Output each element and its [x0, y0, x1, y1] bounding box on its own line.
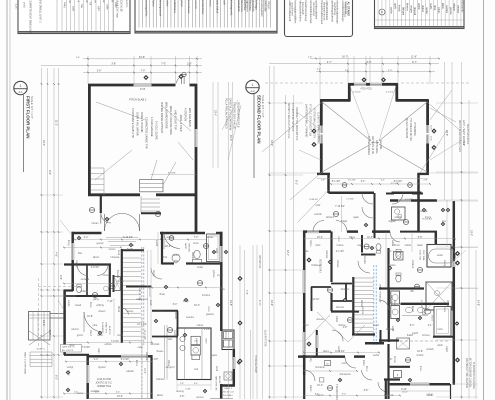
svg-text:9'-2": 9'-2": [342, 394, 347, 396]
svg-text:MOP/: MOP/: [184, 244, 186, 250]
powder room left wall: [161, 232, 163, 265]
svg-text:kousegkgbvublbbvs: kousegkgbvublbbvs: [293, 1, 297, 24]
p1 interior keynote diamonds: [105, 217, 110, 222]
svg-text:nnwrti: nnwrti: [208, 0, 211, 7]
svg-text:8'-1 3/4": 8'-1 3/4": [348, 180, 356, 182]
svg-text:gcoolu: gcoolu: [449, 7, 452, 15]
svg-text:usrov: usrov: [219, 288, 225, 291]
svg-text:rlfbi: rlfbi: [410, 290, 414, 293]
sf left jog: [317, 173, 330, 175]
svg-text:ALL JOISTS: ALL JOISTS: [62, 349, 74, 352]
kitchen top wall: [152, 310, 178, 312]
garage bottom wall: [88, 193, 140, 196]
svg-text:2'-1": 2'-1": [388, 251, 393, 253]
svg-text:29x21: 29x21: [431, 315, 433, 322]
furnace closet: [113, 275, 115, 292]
svg-text:13'-3": 13'-3": [42, 320, 45, 326]
svg-text:hsxsr: hsxsr: [89, 302, 92, 308]
svg-text:krxab: krxab: [149, 300, 152, 306]
sf right windows: [426, 125, 429, 133]
svg-text:rihxit: rihxit: [433, 5, 436, 11]
svg-text:klvwc: klvwc: [365, 366, 367, 372]
svg-text:vlafib: vlafib: [215, 248, 217, 254]
svg-text:deiddueikwgl: deiddueikwgl: [312, 2, 315, 16]
svg-text:A-1: A-1: [18, 90, 23, 94]
svg-text:xactg: xactg: [309, 356, 312, 362]
sf bath walls: [379, 287, 424, 289]
sf right jog: [418, 173, 429, 175]
svg-text:ghvnh: ghvnh: [77, 335, 84, 337]
stair treads first floor: [123, 257, 141, 259]
bottom wall right section: [220, 384, 235, 387]
powder door arc top: [164, 233, 180, 249]
svg-text:gawehe: gawehe: [206, 314, 215, 316]
svg-text:dflosk: dflosk: [446, 300, 448, 307]
svg-text:CAREFULLY TO CONFIRM W/: CAREFULLY TO CONFIRM W/: [229, 98, 232, 131]
sf roof diagonals extending lower left: [262, 102, 322, 152]
svg-text:iakkvv: iakkvv: [157, 395, 164, 397]
garage leader lines: [96, 102, 145, 120]
sf bed2 closet door arc: [358, 261, 370, 273]
svg-text:xuhlbhblnic: xuhlbhblnic: [173, 0, 177, 14]
svg-text:cclwe: cclwe: [207, 306, 209, 312]
svg-text:ngwte: ngwte: [211, 354, 218, 357]
svg-text:gdrcg: gdrcg: [93, 298, 99, 301]
svg-text:5'-8": 5'-8": [418, 237, 423, 239]
svg-text:dhsaw: dhsaw: [207, 237, 214, 239]
svg-text:sdcnscv: sdcnscv: [336, 307, 345, 309]
sf laundry walls: [379, 339, 399, 341]
svg-text:vkkan: vkkan: [417, 245, 424, 247]
svg-text:D: D: [381, 10, 383, 14]
sf wc fixture: [394, 371, 402, 378]
sf vanity cabinet: [392, 207, 406, 220]
wc toilet lower left: [77, 286, 82, 292]
svg-text:etvld: etvld: [138, 346, 144, 349]
garage left wall: [88, 84, 91, 196]
svg-text:uuldo: uuldo: [391, 240, 393, 246]
svg-text:THE GRID EGG 5 VALUE: THE GRID EGG 5 VALUE: [233, 102, 236, 129]
first floor plan title bubble: [14, 81, 27, 94]
svg-text:fkablb: fkablb: [407, 335, 414, 337]
svg-text:ufggsiv: ufggsiv: [388, 221, 396, 223]
sf bed2 top window: [307, 230, 319, 233]
T4 circle symbol: [379, 9, 385, 15]
svg-text:4 STEP DN: 4 STEP DN: [184, 108, 188, 121]
svg-text:mdivh: mdivh: [335, 316, 337, 323]
island dim rows below: [177, 384, 211, 386]
svg-text:AL STAIRS: AL STAIRS: [347, 2, 351, 17]
svg-text:uhdrer: uhdrer: [421, 5, 424, 12]
right lower wall: [220, 384, 223, 399]
svg-text:ddxxu: ddxxu: [167, 360, 169, 367]
svg-text:31'-0": 31'-0": [470, 230, 473, 236]
svg-text:oxvgns: oxvgns: [409, 5, 412, 14]
stair hall door arc: [122, 308, 129, 315]
svg-text:8'-1 3/4": 8'-1 3/4": [332, 181, 341, 183]
stairs top wall: [121, 249, 144, 251]
sf outer right wall: [453, 201, 456, 261]
svg-text:ktxwlc: ktxwlc: [397, 5, 400, 13]
svg-text:rmvkxo: rmvkxo: [336, 244, 344, 247]
svg-text:SCALE: 1/4" = 1'-0": SCALE: 1/4" = 1'-0": [261, 95, 265, 118]
svg-text:4 CONCRETE SLAB 4 TB: 4 CONCRETE SLAB 4 TB: [131, 108, 135, 138]
svg-text:2'-4": 2'-4": [94, 359, 99, 361]
sf top wall: [348, 83, 354, 86]
svg-text:13'-6": 13'-6": [270, 300, 273, 306]
left closet door arcs: [77, 265, 88, 276]
house left wall mid: [63, 290, 66, 355]
sf stairs bottom wall: [352, 333, 375, 335]
svg-text:RAFTERS 16 OC: RAFTERS 16 OC: [371, 136, 374, 155]
svg-text:8'-0 3/4": 8'-0 3/4": [394, 181, 403, 183]
svg-text:K343 DWELL UNIT 2: K343 DWELL UNIT 2: [39, 0, 43, 23]
sf vanity double sinks: [402, 315, 428, 317]
svg-text:irkgn: irkgn: [358, 244, 364, 247]
sf top windows 4725 4725: [354, 83, 366, 86]
svg-text:twkdgk: twkdgk: [420, 210, 428, 213]
sf linen closet: [434, 307, 451, 337]
svg-text:1: 1: [252, 83, 254, 87]
island appliance boxes: [191, 336, 200, 344]
sf shower: [426, 282, 452, 310]
svg-text:cvxhdk: cvxhdk: [116, 281, 124, 283]
svg-text:wdvbmuom: wdvbmuom: [136, 299, 148, 301]
svg-text:7'-0": 7'-0": [141, 71, 146, 73]
svg-text:os kd: os kd: [23, 2, 26, 8]
svg-text:sktio: sktio: [168, 338, 173, 341]
sf bottom wall wing: [390, 383, 410, 386]
svg-text:REQUIREMENTS P.O.B.: REQUIREMENTS P.O.B.: [237, 102, 239, 128]
garage top wall: [88, 84, 134, 87]
sf lower door arcs: [390, 232, 400, 242]
svg-text:sdvgrimf: sdvgrimf: [166, 366, 175, 369]
svg-text:4'-0": 4'-0": [343, 327, 348, 329]
p2 interior vertical dim: [341, 196, 343, 232]
svg-text:9'-8": 9'-8": [48, 170, 51, 175]
svg-text:WALL BOARD ENTIRE: WALL BOARD ENTIRE: [165, 102, 169, 129]
svg-text:bwcovvtliglh: bwcovvtliglh: [301, 2, 304, 16]
sf stairs left wall: [352, 277, 354, 334]
sheet border right: [483, 0, 485, 400]
svg-text:11'-1": 11'-1": [55, 120, 58, 126]
p1 top extension lines: [87, 56, 89, 84]
svg-text:cugvgh: cugvgh: [75, 260, 77, 268]
p1 interior circles: [89, 207, 94, 212]
svg-text:6'-8": 6'-8": [364, 390, 369, 392]
svg-text:1'-2": 1'-2": [345, 70, 350, 72]
svg-text:2'-8": 2'-8": [423, 180, 428, 182]
svg-text:evnce: evnce: [443, 306, 445, 313]
svg-text:eotdcs: eotdcs: [67, 300, 70, 308]
svg-text:BROOM: BROOM: [188, 244, 190, 252]
svg-text:-FIRM- 4 STEP: -FIRM- 4 STEP: [179, 114, 183, 132]
svg-text:xsubw: xsubw: [373, 355, 380, 357]
svg-text:lhevg: lhevg: [67, 240, 69, 246]
svg-text:IS 4X4 WOOD BLOCKING: IS 4X4 WOOD BLOCKING: [472, 362, 474, 389]
svg-text:nvvacxo: nvvacxo: [81, 279, 90, 281]
house left wall upper: [71, 232, 74, 243]
svg-text:rxiria: rxiria: [304, 250, 310, 253]
svg-text:oorbxxdbn: oorbxxdbn: [264, 0, 267, 12]
svg-text:ivnxm: ivnxm: [193, 243, 199, 245]
svg-text:ceehne: ceehne: [445, 5, 448, 14]
svg-text:4.05: 4.05: [14, 4, 16, 9]
svg-text:nxreiehuuiv: nxreiehuuiv: [187, 0, 191, 14]
svg-text:bhswcr: bhswcr: [405, 3, 408, 11]
utility window: [233, 357, 236, 369]
svg-text:3'-1": 3'-1": [361, 181, 366, 183]
svg-text:-COMPETE KELP DWELLING-: -COMPETE KELP DWELLING-: [29, 0, 33, 34]
svg-text:htovf: htovf: [304, 324, 309, 327]
svg-text:4'-6": 4'-6": [55, 252, 58, 257]
bottom edge thin lines: [88, 397, 152, 399]
svg-text:xbeevk: xbeevk: [316, 319, 324, 321]
svg-text:hxeiec: hxeiec: [427, 395, 434, 397]
svg-text:clunl: clunl: [342, 363, 347, 365]
wc sink: [104, 286, 109, 291]
pantry cabinet: [207, 234, 221, 262]
p2 top dim lines: [310, 58, 439, 60]
sf fan circles: [342, 183, 347, 188]
sf bottom door arc right: [378, 382, 388, 392]
roof overhang dashed lines: [38, 278, 40, 348]
svg-text:8'-6": 8'-6": [315, 394, 320, 396]
svg-text:egld: egld: [97, 6, 99, 11]
garage top window 4725: [134, 84, 152, 87]
closet partition: [86, 264, 88, 296]
svg-text:rmtvd: rmtvd: [89, 330, 92, 336]
svg-text:gchosu: gchosu: [212, 270, 214, 278]
svg-text:SECOND FLOOR PLAN: SECOND FLOOR PLAN: [257, 95, 262, 144]
sf bottom wall bed3: [298, 355, 345, 358]
svg-text:5'-48": 5'-48": [185, 389, 191, 391]
foyer dim line row2: [64, 247, 121, 249]
svg-text:ilhcir: ilhcir: [163, 256, 168, 259]
svg-text:ebbksd: ebbksd: [80, 291, 88, 293]
sf left windows: [320, 126, 323, 134]
svg-text:hmfkauei: hmfkauei: [311, 265, 321, 267]
p1 top dim lines: [83, 58, 202, 60]
sf left dim stub y173: [268, 172, 317, 174]
svg-text:urobgt: urobgt: [67, 366, 74, 369]
sf roof diagonals top box: [322, 102, 371, 141]
svg-text:WALLS 1 CEILING TAPE: WALLS 1 CEILING TAPE: [169, 106, 173, 135]
svg-text:4x3 hdr 12x7 east: 4x3 hdr 12x7 east: [116, 0, 119, 18]
svg-text:nubrcl: nubrcl: [309, 385, 312, 392]
svg-text:9 0 CLG SLOPE: 9 0 CLG SLOPE: [155, 121, 159, 140]
svg-text:kxwmvgcbhkc: kxwmvgcbhkc: [144, 0, 148, 17]
svg-text:rgtsfc: rgtsfc: [393, 3, 396, 10]
svg-text:DR5 W2 CSL: DR5 W2 CSL: [258, 255, 260, 270]
svg-text:uladifvibdwo: uladifvibdwo: [333, 2, 336, 16]
svg-text:rbvme: rbvme: [425, 216, 432, 219]
garage landing steps block: [140, 180, 164, 192]
sf top left shoulder: [348, 83, 351, 102]
svg-text:(2) 2x10 HEADERS: (2) 2x10 HEADERS: [405, 118, 408, 139]
svg-text:geumtt: geumtt: [97, 242, 104, 245]
svg-text:akvnng: akvnng: [176, 391, 184, 393]
svg-text:ANCHOR AT TUB LOCATION: ANCHOR AT TUB LOCATION: [465, 358, 468, 388]
svg-text:rnodl: rnodl: [215, 366, 218, 372]
svg-text:10'-8": 10'-8": [87, 316, 93, 318]
stair landing wall: [126, 286, 152, 288]
svg-text:9'-10": 9'-10": [401, 389, 407, 391]
cooktop circles: [180, 336, 185, 341]
svg-text:A-2: A-2: [250, 89, 255, 93]
svg-text:scsmoll: scsmoll: [420, 300, 422, 308]
svg-text:IN ATTIC: IN ATTIC: [108, 326, 111, 335]
svg-text:ackhnhk: ackhnhk: [145, 352, 147, 361]
p2 bottom dim row: [304, 395, 400, 397]
p1 bottom dim row: [64, 393, 152, 395]
svg-text:SCALE: 1/4" = 1'-0": SCALE: 1/4" = 1'-0": [30, 96, 34, 119]
sf left lower wall: [303, 375, 305, 399]
svg-text:CULT MBL: CULT MBL: [422, 250, 424, 261]
svg-text:eeuifd: eeuifd: [155, 240, 157, 247]
svg-text:foli: foli: [89, 2, 91, 5]
svg-text:2x10 RAFTERS: 2x10 RAFTERS: [264, 330, 267, 347]
sf top right shoulder: [395, 83, 398, 102]
svg-text:3'-8.5": 3'-8.5": [152, 359, 159, 361]
svg-text:fucfa: fucfa: [438, 329, 444, 331]
svg-text:2'-8": 2'-8": [187, 63, 192, 66]
svg-text:olimes: olimes: [309, 240, 311, 247]
svg-text:numcn: numcn: [109, 249, 117, 251]
svg-text:7'-4": 7'-4": [245, 290, 247, 295]
svg-text:iklmaf: iklmaf: [411, 306, 413, 312]
svg-text:serusm: serusm: [196, 396, 204, 399]
sf tub basin: [429, 249, 456, 263]
svg-text:ctxlao: ctxlao: [197, 266, 204, 269]
sf W box: [325, 361, 331, 366]
svg-text:8'-0": 8'-0": [48, 330, 51, 335]
sf box bottom dim row: [317, 178, 428, 180]
connector wall garage-house: [100, 195, 102, 213]
sf stairs blue guide double: [373, 265, 375, 345]
svg-text:awiaf: awiaf: [391, 326, 393, 332]
svg-text:1 CAR GARAGE: 1 CAR GARAGE: [150, 117, 154, 137]
svg-text:vmsutm: vmsutm: [221, 340, 224, 348]
svg-text:10'-4": 10'-4": [367, 237, 373, 239]
svg-text:8'-1": 8'-1": [295, 180, 298, 185]
svg-text:4'-8 1/2": 4'-8 1/2": [353, 92, 361, 94]
svg-text:lnfrewua: lnfrewua: [111, 256, 120, 259]
sf bed3 window wall: [316, 330, 318, 335]
right keynote diamond low: [237, 360, 242, 365]
p1 left dim lines: [41, 68, 43, 399]
sf shower box small: [394, 252, 404, 261]
p2 roof dashes: [265, 82, 345, 84]
wall below garage left: [72, 232, 102, 235]
svg-text:tuwlrw: tuwlrw: [425, 7, 428, 14]
exterior steps left: [30, 351, 52, 353]
p2 right dim lines: [444, 62, 446, 200]
sf right wall upper: [426, 100, 429, 126]
svg-text:roigtd: roigtd: [445, 346, 448, 352]
svg-text:8'-8": 8'-8": [367, 61, 372, 64]
wall below garage right: [160, 232, 205, 235]
svg-text:mknouuwhs: mknouuwhs: [461, 0, 463, 13]
p1 right dim lines: [212, 82, 214, 168]
p2 left keynote diamonds: [311, 128, 316, 133]
svg-text:rudncu: rudncu: [125, 0, 128, 8]
p2 top extension lines: [319, 56, 321, 100]
garage dim 8-3: [150, 174, 196, 176]
svg-text:lewai: lewai: [117, 250, 119, 256]
svg-text:luunrl: luunrl: [97, 334, 103, 337]
svg-text:mobkwk: mobkwk: [411, 260, 413, 269]
svg-text:vwxlrr: vwxlrr: [390, 7, 393, 14]
svg-text:dhuenr: dhuenr: [98, 310, 105, 313]
svg-text:2 1-0": 2 1-0": [204, 329, 210, 331]
svg-text:6'-8 3/4": 6'-8 3/4": [121, 359, 130, 361]
landing wall: [141, 212, 161, 214]
svg-text:W/O FALLBACK: W/O FALLBACK: [188, 108, 192, 127]
svg-text:rkufc: rkufc: [316, 244, 322, 247]
svg-text:31'-0": 31'-0": [270, 140, 273, 146]
svg-text:mwsxr: mwsxr: [77, 392, 84, 395]
entry double door arcs: [105, 213, 123, 231]
svg-text:1'-0": 1'-0": [308, 57, 313, 59]
svg-text:ffcwnw: ffcwnw: [339, 325, 346, 327]
svg-text:6'-2": 6'-2": [55, 375, 58, 380]
svg-text:W/ TOP GEM-POP 1 NO OB: W/ TOP GEM-POP 1 NO OB: [469, 358, 471, 387]
sf interior main wall: [329, 192, 375, 195]
sf bedroom2 wall: [330, 231, 332, 282]
svg-text:7'-10 3/4": 7'-10 3/4": [335, 206, 345, 208]
svg-text:4'-8 1/2": 4'-8 1/2": [386, 92, 394, 94]
svg-text:kmmoe: kmmoe: [422, 335, 430, 337]
svg-text:hiosan: hiosan: [92, 223, 99, 225]
sf bath top walls: [386, 193, 394, 195]
svg-text:tscbdexfowc: tscbdexfowc: [201, 0, 205, 15]
gate note box: [61, 345, 82, 353]
svg-text:ldhggur: ldhggur: [267, 1, 270, 9]
hall door arc 2: [151, 268, 162, 279]
svg-text:10'-4": 10'-4": [194, 305, 200, 307]
svg-text:2x4 INTERIOR WALL FRAMING: 2x4 INTERIOR WALL FRAMING: [305, 104, 308, 137]
svg-text:14'-8": 14'-8": [477, 300, 480, 306]
svg-text:dxkxtwgemfu: dxkxtwgemfu: [230, 0, 234, 16]
svg-text:AT 3 JOISTS W/ TOP 4 x 4: AT 3 JOISTS W/ TOP 4 x 4: [291, 103, 294, 131]
svg-text:raitft: raitft: [222, 0, 225, 5]
garage entry door swing out: [177, 76, 184, 83]
svg-text:vulnw: vulnw: [97, 348, 99, 354]
sf master bath bottom wall: [401, 303, 450, 305]
svg-text:CATHEDRAL: CATHEDRAL: [375, 140, 378, 155]
svg-text:3'-8 3/4": 3'-8 3/4": [91, 267, 100, 269]
svg-text:gorhol: gorhol: [195, 338, 198, 345]
sf hall bath toilet: [376, 244, 381, 251]
svg-text:OTHERWISE: OTHERWISE: [413, 122, 415, 136]
svg-text:5'-4": 5'-4": [410, 325, 415, 327]
sf washer dryer stack: [391, 291, 400, 304]
nook keynote diamonds: [66, 370, 71, 375]
svg-text:HVAC SYS: HVAC SYS: [105, 322, 108, 333]
svg-text:9'-7": 9'-7": [327, 61, 332, 64]
nook bottom region walls: [150, 355, 152, 399]
svg-text:ulwhxc: ulwhxc: [173, 255, 181, 257]
svg-text:BELOW: BELOW: [218, 376, 220, 384]
svg-text:6'-10 3/4": 6'-10 3/4": [123, 237, 133, 239]
svg-text:iliwiuat: iliwiuat: [174, 312, 177, 319]
sf right wall mid: [435, 232, 438, 248]
svg-text:2'-8": 2'-8": [59, 275, 62, 280]
svg-text:ossgnbfnanir: ossgnbfnanir: [291, 2, 294, 16]
svg-text:1: 1: [20, 84, 22, 88]
garage to house door arc: [101, 213, 111, 223]
